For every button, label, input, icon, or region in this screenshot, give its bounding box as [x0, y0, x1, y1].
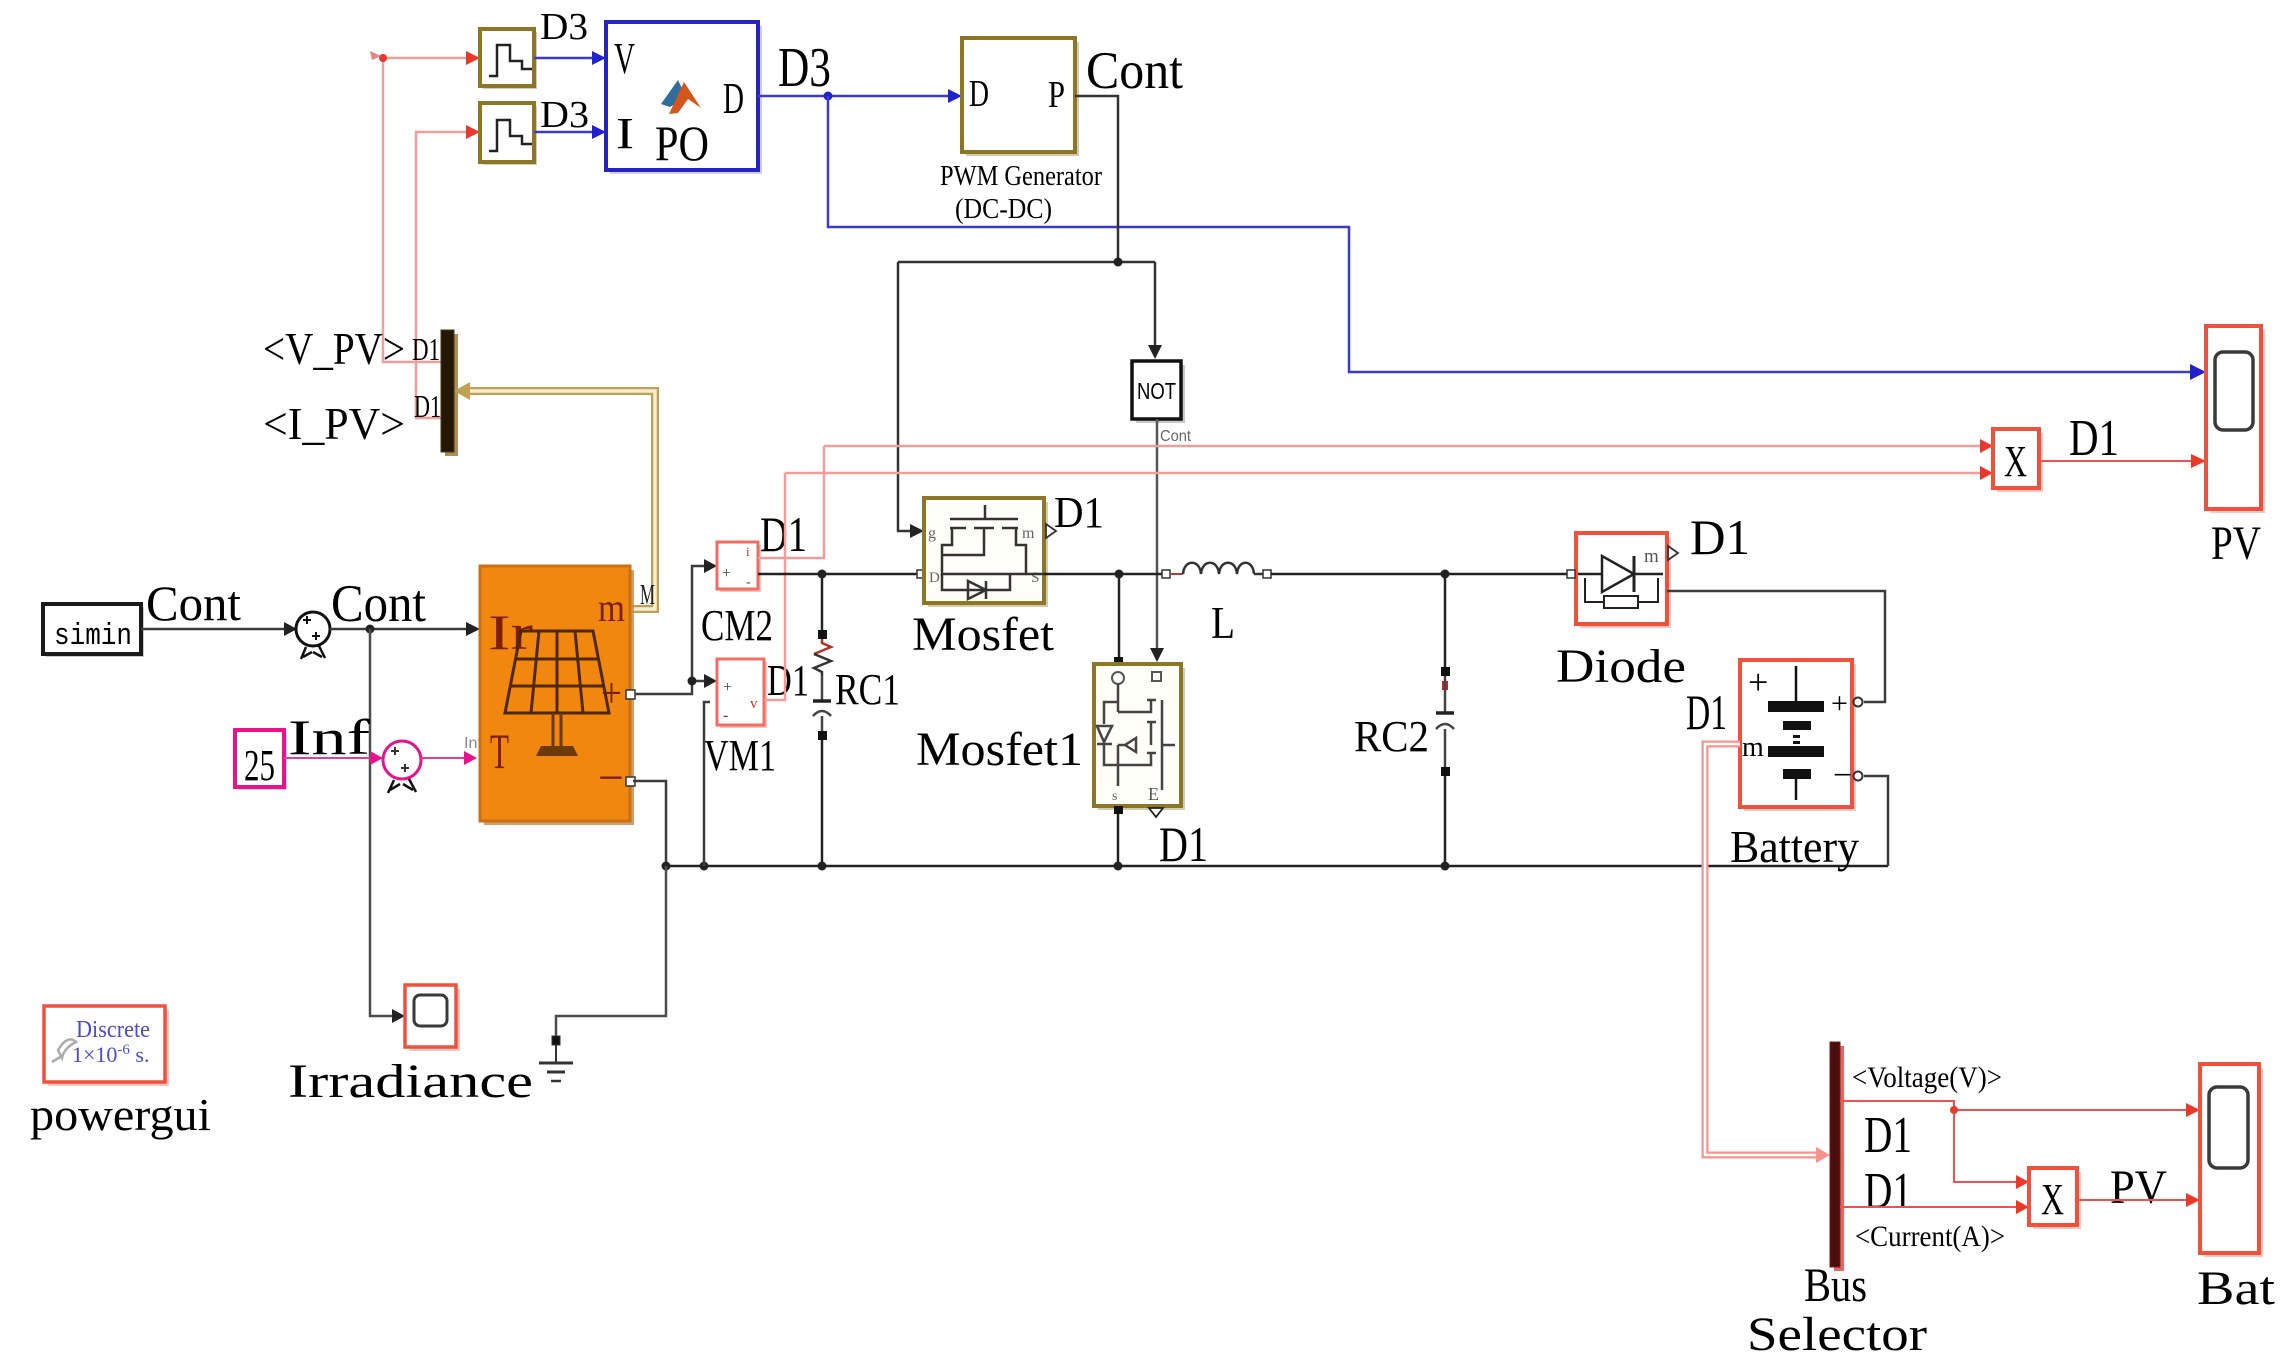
svg-text:-: -: [723, 707, 728, 724]
manual switch (Irradiance): [296, 612, 330, 659]
svg-text:m: m: [1742, 732, 1764, 763]
svg-text:RC2: RC2: [1354, 712, 1429, 761]
svg-text:D1: D1: [1054, 488, 1104, 537]
svg-text:Cont: Cont: [331, 575, 426, 633]
svg-text:<Current(A)>: <Current(A)>: [1855, 1220, 2005, 1253]
port circle Battery +: [1854, 698, 1863, 707]
junction rail VM1: [700, 862, 709, 871]
Battery block: [1740, 660, 1856, 811]
svg-text:D1: D1: [1686, 684, 1727, 740]
junction rail RC1: [818, 862, 827, 871]
MATLAB function block P0: [606, 22, 762, 174]
svg-text:Irradiance: Irradiance: [288, 1055, 533, 1108]
svg-text:D1: D1: [1864, 1107, 1912, 1164]
Mosfet1 block: [1094, 664, 1185, 810]
svg-text:D1: D1: [1864, 1163, 1912, 1220]
svg-text:g: g: [928, 525, 936, 542]
svg-text:m: m: [598, 585, 625, 630]
wire Diode cathode to Battery + (black): [1667, 591, 1885, 702]
svg-text:L: L: [1211, 597, 1235, 648]
svg-text:D1: D1: [412, 331, 440, 367]
svg-text:simin: simin: [54, 619, 132, 654]
svg-text:M: M: [640, 580, 655, 611]
arrowhead into rate transition1: [466, 125, 480, 139]
arrowhead into Bat scope input1: [2186, 1103, 2200, 1117]
wire Mosfet S to inductor (black): [1044, 573, 1163, 576]
svg-text:+: +: [722, 565, 731, 582]
svg-text:X: X: [2004, 437, 2027, 486]
svg-text:S: S: [1031, 570, 1039, 586]
svg-text:1×10-6 s.: 1×10-6 s.: [72, 1042, 149, 1067]
rate transition block (V): [480, 29, 537, 89]
svg-text:D3: D3: [540, 94, 589, 136]
arrowhead into CM2: [704, 559, 717, 573]
junction VM1 branch: [688, 677, 697, 686]
series RC branch RC1: [813, 574, 831, 866]
svg-text:D1: D1: [1690, 509, 1750, 565]
wire bus current output to X1 (red): [1840, 1206, 2017, 1208]
Mosfet block: [924, 498, 1048, 607]
wire V_PV pink feedback to rate transition D3: [383, 58, 472, 362]
wire I_PV pink feedback to rate transition1 D3: [416, 132, 472, 418]
svg-text:CM2: CM2: [701, 601, 773, 650]
svg-text:D1: D1: [414, 388, 441, 424]
svg-text:D1: D1: [767, 656, 809, 705]
stray arrow marker top-left: [370, 51, 381, 60]
svg-text:PWM Generator: PWM Generator: [940, 160, 1102, 192]
svg-text:D3: D3: [778, 37, 831, 99]
svg-text:D1: D1: [1159, 816, 1208, 872]
junction rail-left: [662, 862, 671, 871]
wire Battery m to Bus Selector (salmon): [1705, 744, 1820, 1155]
svg-text:PO: PO: [655, 115, 709, 171]
svg-text:powergui: powergui: [30, 1089, 211, 1140]
wire Battery - to rail (black): [1864, 776, 1888, 866]
svg-text:(DC-DC): (DC-DC): [955, 193, 1052, 225]
junction RC2 branch: [1441, 570, 1450, 579]
bus wire PV m to bus selector (tan): [462, 391, 655, 609]
svg-text:V: V: [614, 34, 635, 83]
arrowhead into VM1: [704, 674, 717, 688]
wire X to PV scope (red): [2039, 460, 2192, 462]
powergui block: [44, 1006, 169, 1086]
inductor L: [1162, 563, 1271, 578]
wire D3 branch to PV scope (blue): [828, 96, 2192, 372]
svg-text:v: v: [750, 696, 758, 712]
wire bus voltage output to Bat scope (red): [1840, 1101, 2194, 1182]
arrowhead into Bus Selector: [1816, 1147, 1830, 1163]
svg-text:X: X: [2041, 1175, 2064, 1224]
simin source block: [43, 604, 144, 657]
svg-text:D1: D1: [2069, 410, 2119, 467]
rate transition1 block (I): [480, 103, 537, 165]
wire P0 D output to PWM Generator D input (blue): [758, 95, 955, 98]
hollow arrow Mosfet m port: [1046, 524, 1056, 538]
series RC branch RC2: [1436, 574, 1454, 866]
wire simin to manual switch (black): [141, 628, 290, 631]
svg-text:+: +: [1831, 687, 1848, 720]
port square PV -: [626, 777, 635, 786]
wire NOT output to Mosfet1 gate (gray): [1156, 419, 1159, 650]
PWM Generator (DC-DC) block: [962, 38, 1079, 156]
product block X (PV power): [1993, 429, 2043, 492]
wire CM2 D1 to product X (pink): [824, 445, 1988, 448]
svg-text:Battery: Battery: [1730, 821, 1859, 872]
wire CM2 i output up (pink): [758, 446, 824, 558]
svg-text:Mosfet: Mosfet: [912, 608, 1055, 661]
junction RC1 branch: [818, 570, 827, 579]
PV array block (orange): [480, 566, 634, 825]
svg-text:Bat: Bat: [2197, 1262, 2276, 1315]
svg-text:s: s: [1112, 789, 1117, 804]
junction rail RC2: [1441, 862, 1450, 871]
svg-text:PV: PV: [2211, 517, 2261, 570]
wire rate transition to P0 V input (blue): [534, 57, 599, 60]
svg-text:m: m: [1022, 525, 1035, 542]
svg-text:D: D: [929, 570, 940, 586]
svg-text:m: m: [1644, 546, 1659, 567]
hollow arrow Mosfet1 E port: [1149, 808, 1163, 817]
svg-text:−: −: [1833, 757, 1852, 794]
port square PV +: [626, 690, 635, 699]
svg-text:Diode: Diode: [1556, 640, 1686, 693]
svg-text:<I_PV>: <I_PV>: [263, 398, 405, 449]
constant block 25: [235, 730, 287, 790]
ground rail (black): [666, 865, 1888, 868]
wire switch1 to PV array T input (magenta): [421, 757, 470, 759]
wire VM1 - input to rail (black): [704, 702, 710, 866]
svg-text:Inf: Inf: [288, 709, 370, 765]
svg-text:+: +: [1748, 662, 1768, 702]
junction V_PV corner: [379, 54, 387, 62]
wire PV + to CM2 and VM1 (black): [635, 566, 710, 694]
wire Mosfet1 source to rail (black): [1117, 806, 1120, 866]
svg-text:D: D: [723, 74, 744, 123]
wire switch to PV array Ir input (black): [330, 628, 473, 631]
wire X1 to Bat scope (red): [2077, 1199, 2194, 1201]
bus selector (Battery measurements): [1830, 1042, 1844, 1271]
arrowhead into Mosfet gate: [910, 524, 924, 538]
svg-text:-: -: [746, 575, 751, 590]
svg-text:I: I: [616, 109, 634, 158]
svg-text:<Voltage(V)>: <Voltage(V)>: [1852, 1061, 2002, 1094]
junction Cont wire: [1114, 258, 1123, 267]
svg-text:Mosfet1: Mosfet1: [916, 723, 1083, 776]
ground symbol: [539, 1036, 573, 1081]
wire VM1 D1 to product X (pink): [785, 472, 1988, 475]
svg-text:Selector: Selector: [1747, 1308, 1927, 1361]
wire Cont branch to Irradiance scope (gray): [370, 629, 398, 1016]
svg-text:PV: PV: [2110, 1161, 2167, 1214]
NOT logic block: [1132, 361, 1185, 423]
wire CM2 output to Mosfet D (black): [758, 573, 918, 576]
svg-text:Cont: Cont: [1160, 428, 1192, 445]
port square Diode anode: [1567, 570, 1575, 578]
wire inductor to diode (black): [1271, 573, 1570, 576]
svg-text:D3: D3: [540, 6, 588, 48]
scope PV: [2206, 326, 2265, 513]
arrowhead bus wire into bus selector: [454, 382, 470, 400]
product block X (battery power): [2029, 1168, 2081, 1229]
svg-text:D: D: [969, 73, 989, 115]
bus selector (PV measurements): [441, 330, 458, 456]
Diode block: [1576, 533, 1671, 628]
svg-text:i: i: [746, 544, 750, 559]
svg-text:VM1: VM1: [704, 731, 776, 780]
svg-text:25: 25: [244, 741, 275, 790]
hollow arrow Diode m port: [1668, 546, 1678, 560]
svg-text:Cont: Cont: [146, 575, 241, 631]
scope Irradiance: [405, 985, 460, 1051]
svg-text:−: −: [598, 752, 624, 803]
port square Mosfet D: [917, 570, 925, 578]
svg-text:Cont: Cont: [1086, 42, 1183, 100]
wire rate transition1 to P0 I input (blue): [534, 131, 599, 134]
svg-text:T: T: [490, 723, 509, 779]
svg-text:<V_PV>: <V_PV>: [263, 323, 405, 374]
junction rail Mosfet1: [1114, 862, 1123, 871]
voltage measurement VM1: [717, 659, 767, 728]
svg-text:RC1: RC1: [835, 665, 900, 714]
svg-text:NOT: NOT: [1137, 378, 1176, 404]
junction Mosfet1 branch: [1115, 570, 1124, 579]
svg-text:P: P: [1048, 74, 1065, 116]
wire VM1 v output up (pink): [764, 473, 785, 700]
arrowhead into X1 input1: [2016, 1175, 2029, 1189]
scope Bat: [2200, 1064, 2263, 1257]
wire PV - to ground rail (black): [633, 781, 666, 866]
wire rail to ground symbol (gray): [556, 866, 666, 1037]
svg-text:+: +: [723, 679, 732, 696]
svg-text:Discrete: Discrete: [76, 1017, 150, 1043]
current measurement CM2: [717, 542, 761, 592]
svg-text:E: E: [1148, 784, 1159, 804]
manual switch1 (Temperature): [383, 741, 421, 793]
arrowhead into rate transition D3: [466, 51, 480, 65]
svg-text:D1: D1: [760, 506, 807, 562]
junction D3 wire: [824, 92, 833, 101]
junction voltage wire: [1950, 1106, 1958, 1114]
junction Cont wire: [366, 625, 375, 634]
port circle Battery -: [1854, 772, 1863, 781]
wire PWM P output down (black): [898, 96, 1155, 531]
svg-text:Bus: Bus: [1804, 1259, 1867, 1312]
wire junction down to Mosfet1 drain (black): [1118, 574, 1121, 658]
arrowhead into NOT: [1148, 345, 1162, 359]
wire 25 to manual switch1 (magenta): [284, 757, 377, 759]
